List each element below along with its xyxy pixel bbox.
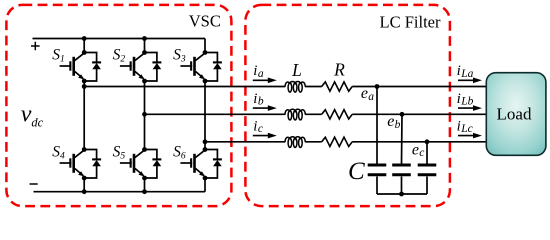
wire: phase a inductor to resistor	[305, 86, 322, 88]
svg-text:iLa: iLa	[457, 63, 474, 80]
svg-text:iLb: iLb	[457, 91, 474, 108]
wire: phase b inductor to resistor	[305, 113, 322, 115]
svg-text:L: L	[291, 60, 302, 80]
wire: e_b down to capacitor	[401, 114, 404, 164]
wire: negative DC rail	[34, 191, 206, 193]
transistor S2 (IGBT with freewheeling diode D2)	[120, 50, 161, 83]
node e_b	[400, 112, 405, 117]
transistor S1 (IGBT with freewheeling diode D1)	[60, 50, 102, 83]
inductor L phase a	[285, 81, 305, 92]
svg-text:ea: ea	[361, 85, 374, 103]
current arrow i_Lc	[458, 133, 482, 139]
current arrow i_c	[253, 133, 277, 139]
junction dots on DC rails	[82, 36, 87, 41]
wire: phase b from leg to inductor	[145, 113, 286, 115]
node - (negative DC terminal)	[30, 183, 38, 185]
svg-text:VSC: VSC	[189, 12, 221, 31]
transistor S5 (IGBT with freewheeling diode D5)	[120, 147, 161, 180]
inductor L phase c	[285, 137, 305, 148]
load block	[486, 73, 546, 156]
svg-text:S3: S3	[173, 46, 186, 64]
svg-text:S5: S5	[113, 143, 126, 161]
svg-text:ic: ic	[253, 118, 263, 135]
LC Filter dashed boundary box	[245, 5, 450, 206]
wire: phase c inductor to resistor	[305, 141, 322, 143]
transistor S4 (IGBT with freewheeling diode D4)	[60, 147, 102, 180]
current arrow i_Lb	[458, 105, 482, 111]
resistor R phase b	[322, 110, 353, 119]
capacitor C phase b	[392, 165, 411, 175]
wire: e_a down to capacitor	[376, 87, 378, 165]
node e_a	[375, 84, 380, 89]
node + (positive DC terminal)	[31, 42, 40, 51]
node phase b tap on leg 2	[142, 112, 147, 117]
svg-text:ec: ec	[412, 141, 425, 159]
wire: leg 2 vertical segments	[144, 39, 146, 192]
wire: leg 3 vertical segments	[204, 39, 206, 192]
svg-text:vdc: vdc	[21, 102, 44, 130]
svg-text:iLc: iLc	[457, 118, 473, 135]
wire: capacitor c to neutral bus	[426, 177, 428, 195]
current arrow i_b	[253, 105, 277, 111]
wire: leg 1 vertical segments	[83, 39, 85, 192]
svg-text:S2: S2	[113, 46, 126, 64]
wire: phase c from leg to inductor	[205, 141, 285, 143]
junction dot neutral bus	[399, 192, 404, 197]
transistor S3 (IGBT with freewheeling diode D3)	[180, 50, 222, 83]
svg-text:R: R	[333, 60, 345, 80]
capacitor C phase a	[368, 165, 387, 175]
current arrow i_La	[458, 78, 482, 84]
wire: capacitor a to neutral bus	[376, 177, 378, 195]
node phase a tap on leg 1	[82, 84, 87, 89]
wire: phase a from leg to inductor	[84, 86, 285, 88]
svg-text:ia: ia	[253, 63, 264, 80]
wire: phase c resistor to load	[352, 141, 487, 143]
resistor R phase c	[322, 137, 353, 146]
svg-text:Load: Load	[497, 105, 532, 124]
VSC dashed boundary box	[6, 5, 231, 206]
wire: phase a resistor to load	[352, 86, 487, 88]
node e_c	[425, 139, 430, 144]
svg-text:S4: S4	[52, 143, 65, 161]
wire: positive DC rail	[33, 38, 206, 40]
wire: capacitor neutral bus	[377, 193, 427, 195]
transistor S6 (IGBT with freewheeling diode D6)	[180, 147, 222, 180]
svg-text:S1: S1	[52, 46, 65, 64]
inductor L phase b	[285, 109, 305, 120]
node phase c tap on leg 3	[203, 139, 208, 144]
current arrow i_a	[253, 78, 277, 84]
svg-text:ib: ib	[253, 91, 264, 108]
svg-text:C: C	[348, 158, 365, 185]
svg-text:S6: S6	[173, 143, 186, 161]
svg-text:eb: eb	[387, 113, 400, 131]
capacitor C phase c	[418, 165, 437, 175]
svg-text:LC Filter: LC Filter	[380, 12, 441, 31]
resistor R phase a	[322, 82, 353, 91]
wire: phase b resistor to load	[352, 113, 487, 115]
wire: capacitor b to neutral bus	[401, 177, 403, 195]
wire: e_c down to capacitor	[426, 142, 428, 164]
